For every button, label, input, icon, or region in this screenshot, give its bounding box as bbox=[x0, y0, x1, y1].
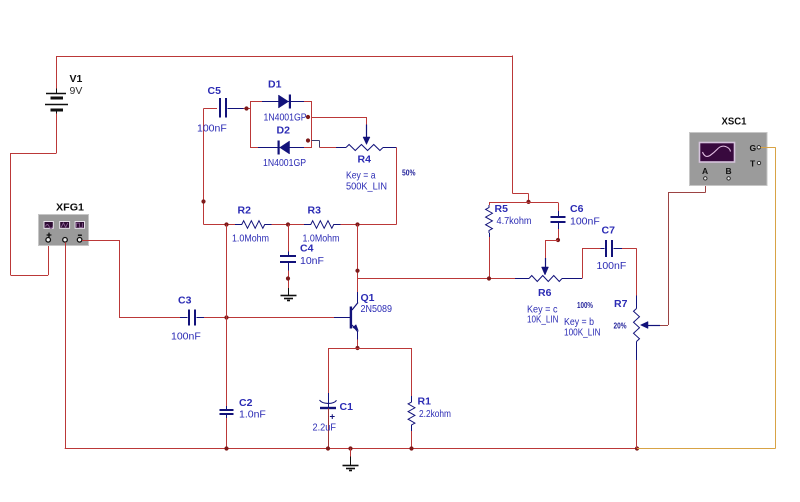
capacitor C2 bbox=[220, 406, 234, 418]
wire left vertical from C5 down to R2 rail bbox=[203, 109, 205, 225]
svg-text:1.0Mohm: 1.0Mohm bbox=[232, 233, 269, 245]
svg-text:R5: R5 bbox=[495, 203, 509, 215]
wire Q1 emitter down bbox=[357, 340, 359, 349]
resistor R3 bbox=[304, 221, 340, 229]
wire R5-C6 rail bbox=[489, 202, 558, 204]
oscilloscope XSC1 bbox=[690, 133, 768, 186]
svg-text:100nF: 100nF bbox=[197, 123, 227, 135]
svg-text:2.2kohm: 2.2kohm bbox=[419, 408, 451, 420]
svg-text:50%: 50% bbox=[402, 169, 416, 178]
capacitor C7 bbox=[601, 240, 637, 257]
potentiometer R6 bbox=[515, 258, 582, 282]
transistor Q1 bbox=[334, 292, 358, 340]
wire top rail from V1 to R5/C6 branch bbox=[57, 56, 513, 58]
battery V1 bbox=[45, 56, 68, 114]
svg-text:C7: C7 bbox=[602, 225, 616, 237]
node R1-bus bbox=[409, 446, 413, 450]
capacitor C4 bbox=[280, 225, 296, 271]
svg-text:C5: C5 bbox=[208, 85, 222, 97]
node C2-bus bbox=[224, 446, 228, 450]
wire scope A channel bbox=[660, 325, 668, 327]
wire to R4 wiper bbox=[312, 117, 367, 119]
node rail-R2 junction bbox=[224, 222, 228, 226]
svg-text:10K_LIN: 10K_LIN bbox=[527, 314, 559, 326]
svg-text:2.2uF: 2.2uF bbox=[313, 422, 337, 434]
wire R6 up to C7 bbox=[582, 248, 584, 278]
node collector junction bbox=[355, 269, 359, 273]
svg-text:4.7kohm: 4.7kohm bbox=[497, 215, 532, 227]
svg-text:V1: V1 bbox=[70, 73, 83, 85]
potentiometer R4 bbox=[336, 125, 397, 151]
node C5 output bbox=[244, 106, 248, 110]
node diode bottom output bbox=[306, 138, 310, 142]
node top-right junction bbox=[526, 200, 530, 204]
diode D2 bbox=[258, 141, 304, 155]
node diode top output bbox=[306, 115, 310, 119]
wire ground bus bottom bbox=[65, 448, 637, 450]
node ground-bus bbox=[348, 446, 352, 450]
wire C6 to R6 wiper bbox=[545, 240, 558, 242]
svg-text:100nF: 100nF bbox=[570, 216, 600, 228]
resistor R2 bbox=[235, 221, 271, 229]
capacitor C6 bbox=[551, 203, 566, 241]
wire bbox=[272, 224, 305, 226]
wire C3 to Q1 base bbox=[204, 317, 334, 319]
capacitor C5 bbox=[204, 98, 252, 118]
node C6 bottom bbox=[556, 238, 560, 242]
node R7-bus junction with scope ground bbox=[635, 446, 639, 450]
wire bbox=[341, 224, 397, 226]
svg-text:R7: R7 bbox=[614, 298, 628, 310]
svg-text:D2: D2 bbox=[277, 125, 291, 137]
svg-text:B: B bbox=[726, 166, 732, 176]
svg-text:A: A bbox=[702, 166, 708, 176]
svg-text:D1: D1 bbox=[268, 79, 282, 91]
wire R7 bottom to bus bbox=[636, 360, 638, 449]
wire C7 down to R7 bbox=[636, 248, 638, 296]
svg-text:10nF: 10nF bbox=[300, 255, 324, 267]
wire C4 to ground bbox=[288, 271, 290, 289]
svg-text:C1: C1 bbox=[340, 401, 354, 413]
svg-text:C3: C3 bbox=[178, 295, 192, 307]
wire R2/R3 rail bbox=[204, 224, 236, 226]
wire XFG1 minus to C3 bbox=[82, 240, 119, 242]
svg-text:T: T bbox=[750, 158, 756, 168]
ground below C4 bbox=[281, 288, 297, 301]
wire vertical through C2 bbox=[226, 225, 228, 409]
svg-text:100nF: 100nF bbox=[171, 331, 201, 343]
wire R4 down to rail bbox=[396, 148, 398, 225]
node rail-Q1 junction bbox=[355, 222, 359, 226]
wire XFG1 common to ground bus bbox=[65, 242, 67, 448]
svg-text:XSC1: XSC1 bbox=[722, 116, 747, 128]
svg-text:R4: R4 bbox=[358, 154, 372, 166]
svg-text:1.0nF: 1.0nF bbox=[239, 409, 266, 421]
svg-text:R6: R6 bbox=[538, 287, 552, 299]
node C3 junction bbox=[224, 315, 228, 319]
resistor R1 bbox=[408, 348, 415, 449]
wire scope ground orange bbox=[761, 147, 776, 149]
wire collector branch to R6 rail bbox=[358, 278, 516, 280]
wire jog bbox=[513, 193, 529, 195]
svg-text:100%: 100% bbox=[577, 301, 593, 310]
wire diode loop rectangle bbox=[251, 102, 312, 148]
svg-text:20%: 20% bbox=[614, 322, 627, 331]
diode D1 bbox=[262, 95, 304, 109]
svg-text:G: G bbox=[750, 143, 757, 153]
wire emitter rail to C1 and R1 bbox=[328, 348, 412, 350]
svg-text:C2: C2 bbox=[239, 397, 253, 409]
node bbox=[201, 199, 205, 203]
wire jog to R4 bbox=[312, 140, 320, 142]
svg-text:9V: 9V bbox=[70, 85, 83, 97]
node emitter junction bbox=[355, 346, 359, 350]
svg-text:500K_LIN: 500K_LIN bbox=[346, 181, 387, 193]
node bbox=[286, 276, 290, 280]
svg-text:C4: C4 bbox=[300, 243, 314, 255]
wire bbox=[512, 56, 514, 194]
svg-text:2N5089: 2N5089 bbox=[361, 303, 393, 315]
svg-text:100nF: 100nF bbox=[597, 260, 627, 272]
node R5/R6 junction bbox=[487, 276, 491, 280]
node rail-C4 junction bbox=[286, 222, 290, 226]
svg-text:R3: R3 bbox=[308, 205, 322, 217]
svg-text:100K_LIN: 100K_LIN bbox=[564, 327, 601, 339]
svg-text:R1: R1 bbox=[418, 396, 432, 408]
function generator XFG1 bbox=[39, 215, 89, 246]
ground bottom bbox=[343, 449, 359, 471]
resistor R5 bbox=[486, 203, 493, 279]
svg-text:1N4001GP: 1N4001GP bbox=[264, 112, 307, 124]
svg-text:XFG1: XFG1 bbox=[56, 202, 84, 214]
capacitor C1 electrolytic bbox=[320, 348, 337, 449]
svg-text:R2: R2 bbox=[238, 205, 252, 217]
node C1-bus bbox=[326, 446, 330, 450]
wire battery to XFG1 plus bbox=[56, 114, 58, 154]
svg-text:C6: C6 bbox=[570, 203, 584, 215]
svg-text:1N4001GP: 1N4001GP bbox=[263, 157, 306, 169]
capacitor C3 bbox=[180, 310, 205, 326]
potentiometer R7 bbox=[634, 296, 661, 361]
wire Q1 collector to rail bbox=[357, 225, 359, 293]
